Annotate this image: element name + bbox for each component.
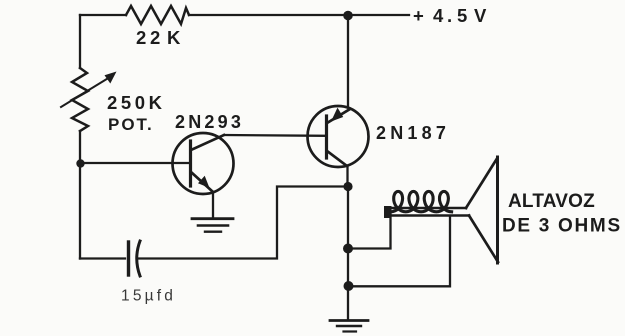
svg-text:K: K: [167, 27, 181, 48]
speaker LS1 horn pipe: [387, 207, 466, 210]
node pot-base junction: [76, 159, 84, 167]
svg-text:2: 2: [136, 27, 148, 48]
wire base of Q1: [84, 162, 190, 164]
wire speaker coil right lead: [349, 216, 451, 286]
potentiometer R2 250K: [72, 68, 88, 131]
node speaker bottom junction: [344, 281, 354, 291]
resistor R1 22K: [126, 6, 189, 24]
Q1 emitter arrow: [198, 176, 210, 188]
svg-text:15µfd: 15µfd: [121, 288, 176, 305]
capacitor C1 15ufd wire left: [80, 257, 125, 259]
capacitor C1 wire right: [139, 187, 348, 259]
speaker LS1 horn bell: [466, 159, 497, 209]
svg-text:4: 4: [433, 5, 444, 26]
svg-text:250K: 250K: [107, 92, 166, 113]
wire main vertical to ground: [347, 187, 349, 321]
capacitor C1 plates: [127, 242, 130, 275]
Q2 emitter arrow: [331, 108, 343, 122]
svg-text:V: V: [474, 5, 487, 26]
ground Q1: [192, 217, 233, 220]
svg-text:5: 5: [457, 5, 467, 26]
wire left vertical upper: [79, 15, 81, 68]
svg-text:POT.: POT.: [108, 115, 154, 134]
svg-text:2N293: 2N293: [175, 112, 244, 132]
wire Q1 collector to Q2 base: [224, 134, 326, 137]
svg-text:.: .: [447, 5, 452, 26]
transistor Q2 2N187: [308, 106, 369, 167]
svg-text:+: +: [413, 5, 424, 26]
node speaker top junction: [343, 244, 353, 254]
wire Q1 emitter down: [212, 192, 214, 218]
wire supply vertical to Q2: [347, 16, 349, 108]
wire Q2 collector down: [346, 166, 348, 186]
inductor L1 voice coil: [391, 191, 452, 211]
speaker terminal block: [384, 206, 392, 218]
svg-text:ALTAVOZ: ALTAVOZ: [508, 191, 595, 212]
node collector junction: [343, 182, 352, 191]
pot wiper arrow: [61, 77, 110, 107]
svg-text:2N187: 2N187: [376, 123, 450, 143]
wire left vertical lower: [79, 131, 81, 259]
wire top left horizontal: [80, 14, 126, 16]
transistor Q1 2N293: [173, 133, 234, 194]
svg-text:DE 3 OHMS: DE 3 OHMS: [502, 216, 622, 237]
wire speaker coil left lead: [348, 214, 391, 249]
svg-text:2: 2: [150, 27, 160, 48]
wire top right to supply: [189, 14, 409, 16]
ground main: [330, 319, 368, 322]
node supply junction: [343, 11, 353, 21]
